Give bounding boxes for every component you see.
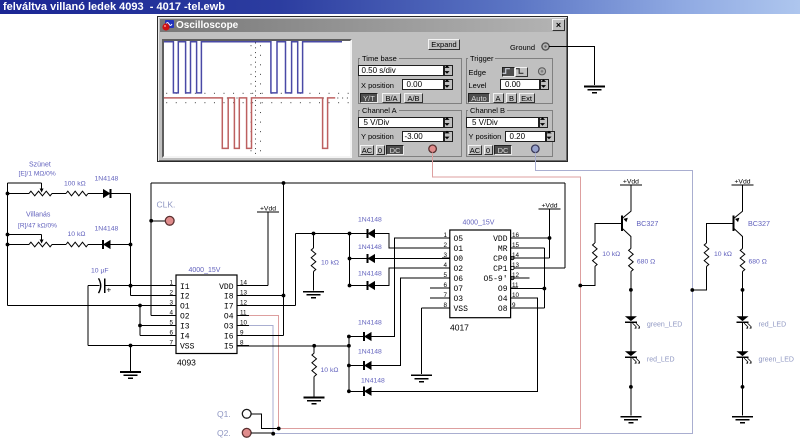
- scope ground terminal: [542, 43, 549, 50]
- wire CLK top: [151, 182, 565, 184]
- svg-text:I3: I3: [180, 323, 190, 332]
- Expand button: [428, 39, 460, 50]
- svg-text:4: 4: [443, 262, 447, 269]
- ground symbol (branch): [620, 416, 641, 418]
- display sunken area: [162, 39, 352, 158]
- wire MR-O9-O8: [511, 247, 545, 249]
- svg-text:+Vdd: +Vdd: [734, 179, 750, 186]
- pin 1 4017: [442, 237, 450, 239]
- pin 6 4017: [442, 287, 450, 289]
- scope ground wire: [549, 47, 594, 86]
- svg-text:1N4148: 1N4148: [361, 378, 385, 385]
- svg-text:CP0: CP0: [493, 255, 508, 264]
- wire O1 feedback: [8, 305, 177, 307]
- svg-text:O4: O4: [498, 295, 508, 304]
- wire to I2: [131, 295, 177, 297]
- svg-text:1N4148: 1N4148: [358, 217, 382, 224]
- pin 6 4093: [164, 335, 176, 337]
- svg-text:7: 7: [169, 339, 173, 346]
- svg-text:1: 1: [169, 280, 173, 287]
- svg-text:1N4148: 1N4148: [358, 244, 382, 251]
- scope title bar: [160, 19, 565, 32]
- Time base group: [358, 58, 462, 104]
- close button: [552, 19, 565, 31]
- svg-text:10 kΩ: 10 kΩ: [714, 251, 732, 258]
- svg-text:O6: O6: [454, 275, 464, 284]
- LED red_LED: [737, 316, 749, 321]
- pin 3 4093: [164, 305, 176, 307]
- svg-text:O1: O1: [454, 245, 464, 254]
- terminal CLK: [149, 219, 153, 223]
- pin 5 4017: [442, 277, 450, 279]
- pin 5 4093: [164, 325, 176, 327]
- svg-text:10 µF: 10 µF: [91, 268, 109, 275]
- svg-text:10: 10: [240, 319, 248, 326]
- svg-text:[E]/1 MΩ/0%: [E]/1 MΩ/0%: [19, 171, 56, 178]
- pin 9 4017: [511, 307, 518, 309]
- svg-text:1N4148: 1N4148: [358, 271, 382, 278]
- svg-text:MR: MR: [498, 245, 508, 254]
- svg-text:VSS: VSS: [180, 343, 195, 352]
- svg-text:I8: I8: [224, 293, 234, 302]
- svg-text:9: 9: [240, 329, 244, 336]
- scope channel A (blue) trace: [164, 42, 342, 93]
- pin 8 4093: [237, 345, 249, 347]
- svg-text:680 Ω: 680 Ω: [637, 259, 655, 266]
- pin 7 4017: [442, 297, 450, 299]
- pin 11 4093: [237, 315, 249, 317]
- svg-text:1N4148: 1N4148: [95, 226, 119, 233]
- svg-text:O1: O1: [180, 303, 190, 312]
- svg-text:green_LED: green_LED: [759, 357, 794, 364]
- ground symbol (lower pulldown): [313, 377, 315, 397]
- pin 2 4093: [164, 295, 176, 297]
- pin 10 4093: [237, 325, 249, 327]
- LED red_LED: [625, 351, 637, 356]
- wire VSS to ground: [422, 307, 450, 309]
- pin bubbles CP0 CP1 O5-9: [511, 256, 514, 259]
- wire to I7: [295, 234, 297, 306]
- pin 4 4093: [164, 315, 176, 317]
- svg-text:O8: O8: [498, 305, 508, 314]
- node upper diode rail: [349, 234, 351, 286]
- svg-text:3: 3: [443, 252, 447, 259]
- svg-text:10 kΩ: 10 kΩ: [602, 251, 620, 258]
- svg-text:O9: O9: [498, 285, 508, 294]
- svg-text:100 kΩ: 100 kΩ: [64, 181, 86, 188]
- svg-text:green_LED: green_LED: [647, 322, 682, 329]
- Trigger group: [466, 58, 553, 104]
- svg-text:VSS: VSS: [454, 305, 469, 314]
- Ground label: [510, 43, 535, 52]
- node gate4 input row: [237, 345, 349, 347]
- wire cap to ground row: [87, 286, 89, 346]
- svg-text:Szünet: Szünet: [29, 162, 51, 169]
- svg-text:+Vdd: +Vdd: [541, 203, 557, 210]
- svg-text:I6: I6: [224, 333, 234, 342]
- svg-text:+Vdd: +Vdd: [260, 206, 276, 213]
- LED green_LED: [625, 316, 637, 321]
- wire base: [707, 223, 733, 243]
- wire O5-9 dangle: [511, 277, 530, 279]
- pin 12 4017: [511, 277, 518, 279]
- wire O2 riser: [150, 183, 152, 316]
- svg-text:red_LED: red_LED: [647, 357, 675, 364]
- svg-text:10 kΩ: 10 kΩ: [321, 367, 339, 374]
- svg-text:10 kΩ: 10 kΩ: [68, 231, 86, 238]
- svg-text:BC327: BC327: [636, 219, 658, 228]
- ground symbol (branch): [732, 416, 753, 418]
- scope graticule dots: [165, 43, 349, 154]
- node diode output rail: [130, 194, 132, 296]
- svg-text:Q1.: Q1.: [217, 409, 231, 419]
- wire CLK to I8 and I6: [283, 183, 285, 336]
- pin 9 4093: [237, 335, 249, 337]
- scope channel A terminal: [429, 145, 437, 153]
- svg-text:+: +: [107, 286, 112, 295]
- ground symbol (upper pulldown): [313, 272, 315, 291]
- wire O7 dangle: [430, 287, 450, 289]
- pin 12 4093: [237, 305, 249, 307]
- svg-text:I2: I2: [180, 293, 190, 302]
- svg-text:O0: O0: [454, 255, 464, 264]
- ground symbol (scope): [584, 86, 605, 88]
- svg-text:4000_15V: 4000_15V: [189, 267, 221, 274]
- svg-text:5: 5: [169, 319, 173, 326]
- wire O3 dangle: [430, 297, 450, 299]
- svg-text:CP1: CP1: [493, 265, 508, 274]
- svg-text:10: 10: [512, 292, 520, 299]
- LED green_LED: [737, 351, 749, 356]
- svg-text:O5: O5: [454, 235, 464, 244]
- pin 3 4017: [442, 257, 450, 259]
- svg-text:red_LED: red_LED: [759, 322, 787, 329]
- svg-text:+Vdd: +Vdd: [623, 179, 639, 186]
- svg-text:VDD: VDD: [493, 235, 508, 244]
- pin 1 4093: [164, 285, 176, 287]
- svg-text:I1: I1: [180, 283, 190, 292]
- svg-text:4017: 4017: [450, 323, 469, 333]
- svg-text:Villanás: Villanás: [26, 212, 51, 219]
- svg-text:3: 3: [169, 299, 173, 306]
- svg-text:4: 4: [169, 309, 173, 316]
- pin 14 4017: [511, 257, 518, 259]
- svg-text:O2: O2: [454, 265, 464, 274]
- Channel B group: [466, 110, 553, 157]
- node left rail: [7, 183, 9, 306]
- pin 13 4017: [511, 267, 518, 269]
- svg-text:1N4148: 1N4148: [95, 176, 119, 183]
- scope channel B (red) trace: [164, 98, 335, 148]
- svg-text:I5: I5: [224, 343, 234, 352]
- pin 7 4093: [164, 345, 176, 347]
- svg-text:13: 13: [240, 289, 248, 296]
- wire violet net O3: scope B - branch2 base - Q2: [244, 153, 692, 434]
- wire salmon net O4: scope A - branch1 base - Q1: [244, 153, 580, 429]
- trigger edge button glyphs: [503, 69, 510, 74]
- node lower diode rail: [348, 337, 350, 392]
- junction violet-base2: [690, 288, 694, 292]
- pin 15 4017: [511, 247, 518, 249]
- svg-text:[R]/47 kΩ/0%: [R]/47 kΩ/0%: [18, 223, 57, 230]
- svg-text:11: 11: [240, 309, 247, 316]
- svg-text:5: 5: [443, 272, 447, 279]
- wire O1 to I3 I4: [139, 306, 141, 336]
- svg-text:4000_15V: 4000_15V: [463, 220, 495, 227]
- svg-text:4093: 4093: [177, 358, 196, 368]
- wire pot2 wiper: [8, 234, 42, 236]
- svg-text:6: 6: [169, 329, 173, 336]
- node gate3 input row: [296, 233, 350, 235]
- pin 14 4093: [237, 285, 249, 287]
- junction salmon-base1: [578, 284, 582, 288]
- svg-text:O4: O4: [224, 313, 234, 322]
- scope channel B terminal: [532, 145, 540, 153]
- pin 4 4017: [442, 267, 450, 269]
- Channel A group: [358, 110, 462, 157]
- pin 8 4017: [442, 307, 450, 309]
- svg-text:1N4148: 1N4148: [358, 349, 382, 356]
- svg-text:O3: O3: [454, 295, 464, 304]
- svg-text:CLK.: CLK.: [157, 200, 176, 210]
- svg-text:O7: O7: [454, 285, 464, 294]
- svg-text:O3: O3: [224, 323, 234, 332]
- op-amp U2 4017 box: [450, 230, 511, 318]
- op-amp U1 4093 box: [176, 275, 237, 354]
- wire CLK to CP1: [564, 183, 566, 268]
- svg-text:11: 11: [512, 282, 519, 289]
- svg-text:2: 2: [443, 242, 447, 249]
- svg-text:O2: O2: [180, 313, 190, 322]
- svg-text:O5-9': O5-9': [484, 275, 508, 284]
- wire base: [595, 223, 621, 243]
- svg-text:10 kΩ: 10 kΩ: [321, 260, 339, 267]
- svg-text:680 Ω: 680 Ω: [749, 259, 767, 266]
- svg-text:BC327: BC327: [748, 219, 770, 228]
- svg-text:I4: I4: [180, 333, 190, 342]
- svg-text:1: 1: [443, 232, 447, 239]
- wire pot1 wiper: [8, 182, 42, 184]
- svg-text:VDD: VDD: [219, 283, 234, 292]
- spinner arrows: [444, 65, 449, 68]
- pin 11 4017: [511, 287, 518, 289]
- trigger level radio: [538, 68, 545, 75]
- svg-text:2: 2: [169, 289, 173, 296]
- pin 10 4017: [511, 297, 518, 299]
- ground symbol (4017): [411, 374, 432, 376]
- pin 13 4093: [237, 295, 249, 297]
- svg-text:1N4148: 1N4148: [358, 320, 382, 327]
- pin 16 4017: [511, 237, 518, 239]
- svg-text:12: 12: [240, 299, 248, 306]
- pin 2 4017: [442, 247, 450, 249]
- svg-text:Q2.: Q2.: [217, 428, 231, 438]
- oscilloscope window: [157, 16, 568, 162]
- ground symbol (4093): [130, 346, 132, 371]
- svg-text:I7: I7: [224, 303, 234, 312]
- main window title bar: [0, 0, 800, 14]
- svg-text:8: 8: [240, 339, 244, 346]
